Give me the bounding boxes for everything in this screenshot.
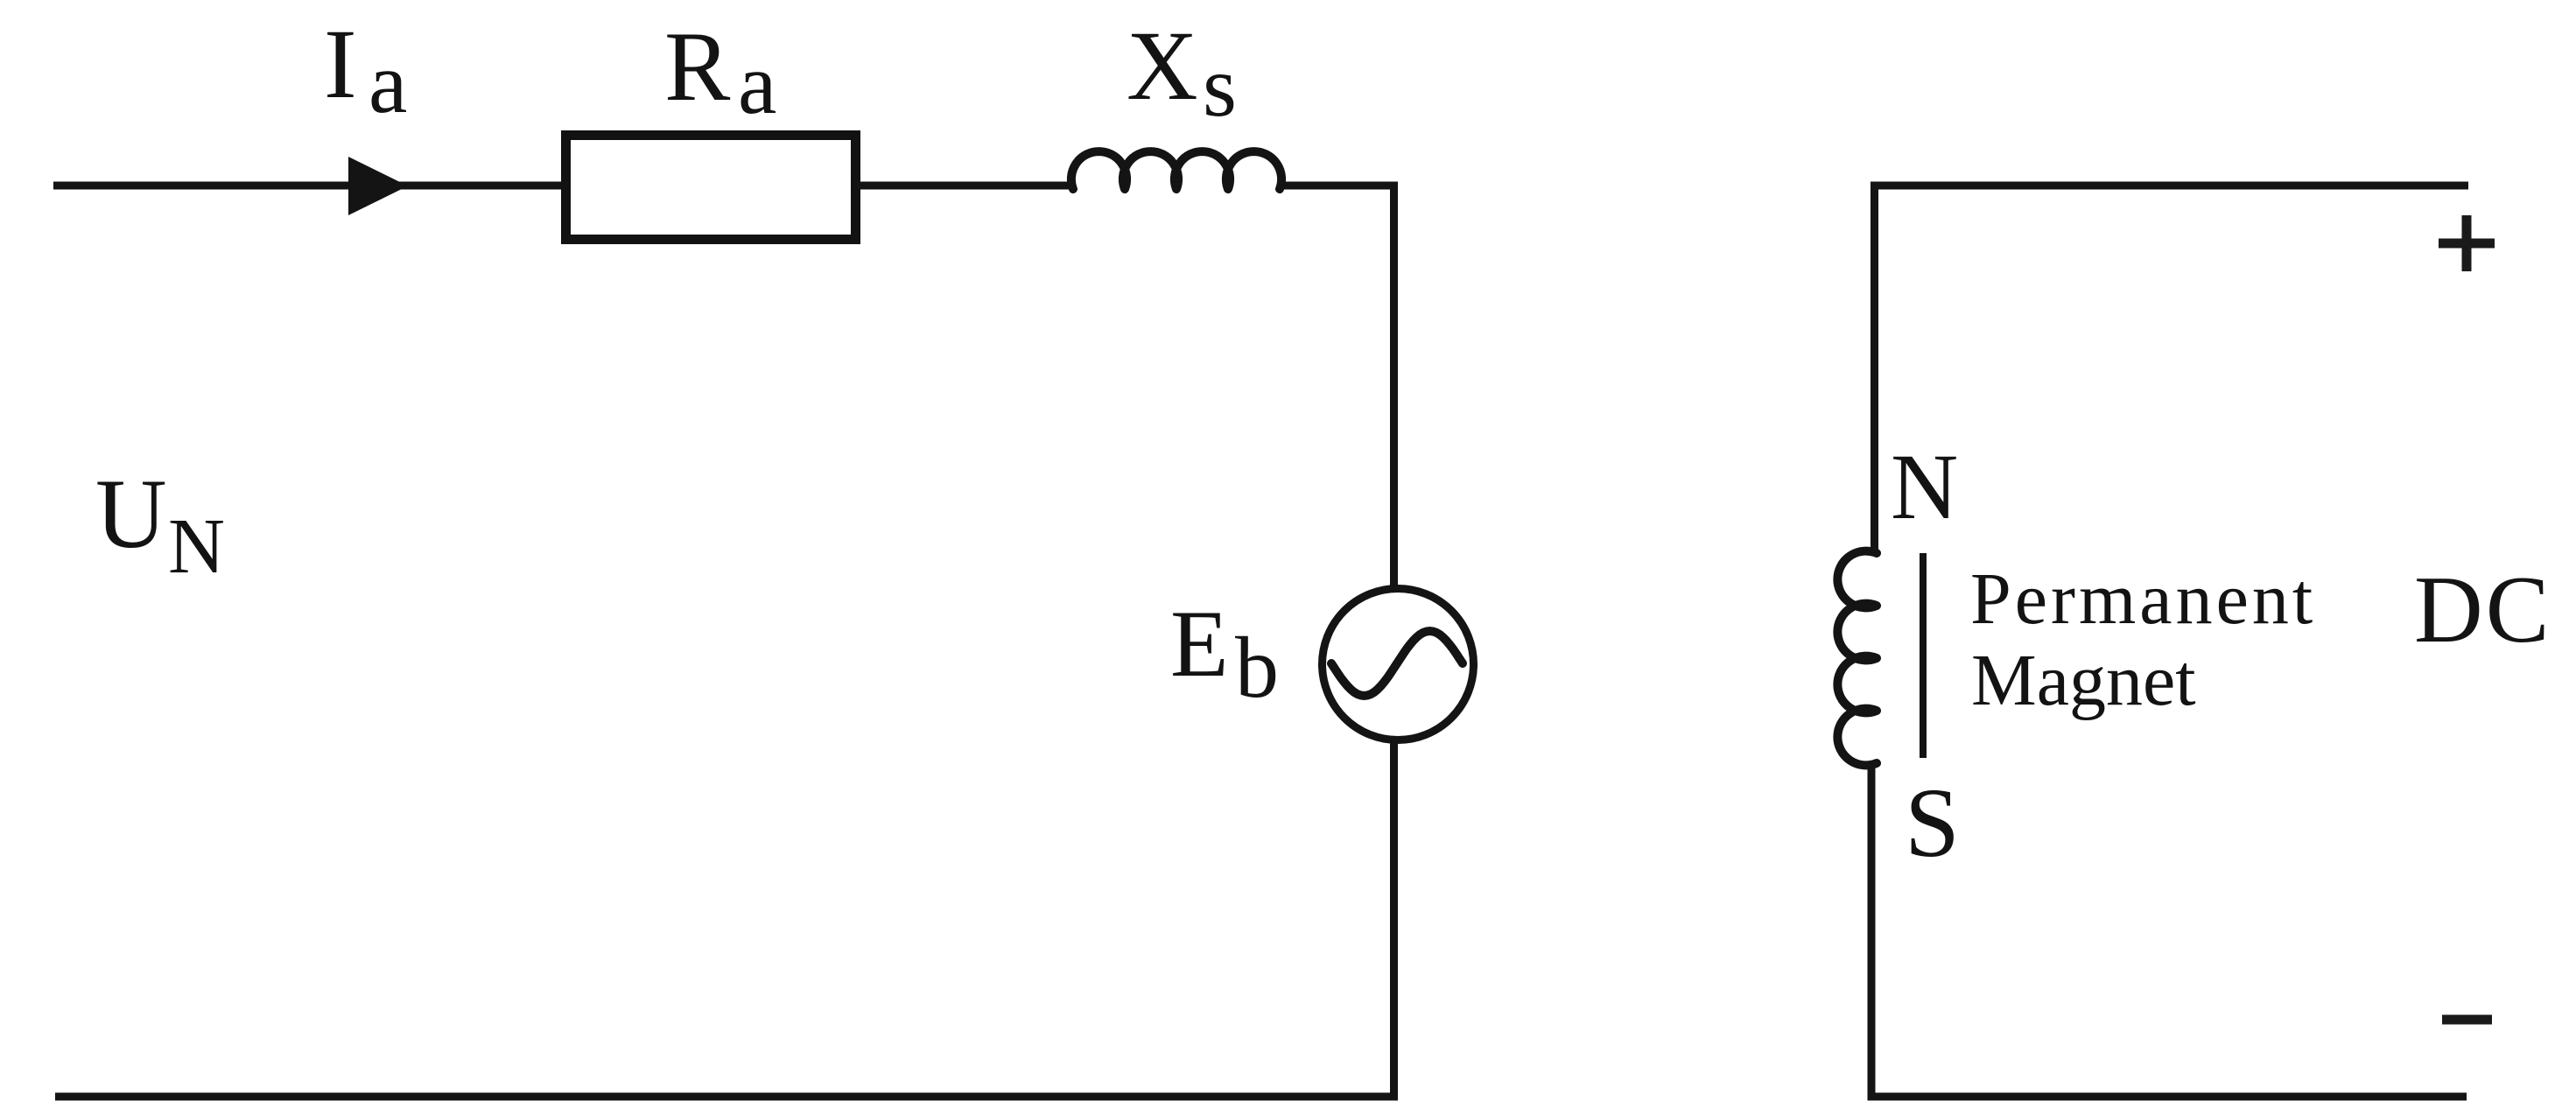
svg-text:DC: DC (2414, 557, 2551, 663)
svg-text:b: b (1235, 619, 1279, 716)
svg-text:s: s (1203, 38, 1237, 135)
svg-text:Magnet: Magnet (1971, 640, 2196, 721)
svg-text:a: a (369, 34, 407, 131)
svg-text:N: N (1891, 436, 1958, 539)
svg-text:Permanent: Permanent (1970, 558, 2316, 640)
svg-text:U: U (95, 459, 167, 569)
svg-text:E: E (1170, 591, 1229, 697)
svg-text:X: X (1127, 11, 1198, 121)
svg-text:S: S (1905, 768, 1960, 878)
svg-text:I: I (324, 10, 357, 119)
svg-text:R: R (664, 12, 731, 122)
svg-text:N: N (168, 503, 225, 590)
svg-text:a: a (738, 35, 776, 132)
